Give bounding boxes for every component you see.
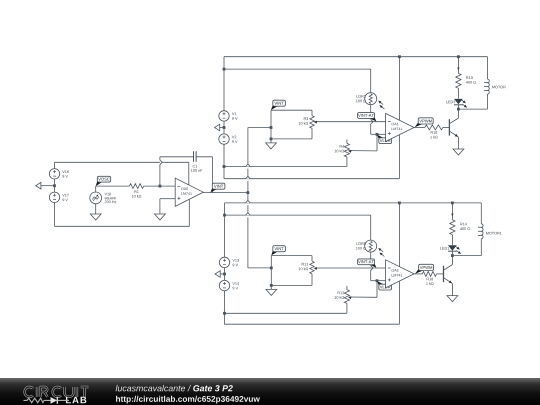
wire R14 to LED1 xyxy=(451,235,453,245)
ground left of V13/V14 xyxy=(215,271,225,278)
wire LED3 to collector xyxy=(457,105,459,109)
wire R1 to OA6 minus input xyxy=(144,185,176,187)
node R13 rail xyxy=(457,55,460,58)
voltage source V16 xyxy=(49,169,69,179)
wire VINT feed bottom rect xyxy=(248,267,271,269)
wire -9Vb rail to R12 xyxy=(225,303,347,313)
node between V13 V14 xyxy=(223,273,226,276)
wire feedback up xyxy=(159,157,161,186)
wire V2 down xyxy=(223,144,225,178)
wiper R4 wire xyxy=(348,134,377,153)
capacitor C1 xyxy=(191,151,202,172)
node OA5 V+ rail xyxy=(398,202,401,205)
label VINT top rect xyxy=(271,100,285,110)
wire LDR5 to OA5 plus xyxy=(371,252,386,281)
label VPWM top xyxy=(415,118,434,127)
wire top rail +9V xyxy=(224,57,488,111)
wire V18 to R1 xyxy=(96,186,130,192)
node rect bottom xyxy=(270,138,273,141)
wire V17 bottom rail xyxy=(55,203,190,227)
label VINT-AT bottom xyxy=(358,259,377,268)
node between V1 V2 xyxy=(223,126,226,129)
wire feedback top right xyxy=(196,157,212,193)
resistor R14 400 xyxy=(450,220,470,235)
ground under V18 xyxy=(90,204,101,220)
transistor Q2 NPN xyxy=(444,265,453,284)
label VPWM bottom xyxy=(415,264,434,273)
photoresistor LDR1 100 xyxy=(356,93,384,109)
wiper R12 wire xyxy=(348,281,377,300)
op-amp OA1 LM741 xyxy=(386,113,415,141)
voltage source V17 xyxy=(49,192,68,202)
resistor R1 xyxy=(129,184,143,198)
node OA1 V+ rail xyxy=(398,55,401,58)
ground at OA6 plus input xyxy=(155,208,166,220)
wire rail to LDR1 xyxy=(224,69,371,93)
label VINT at OA6 output xyxy=(210,183,225,192)
ground under Q2 xyxy=(447,296,458,302)
node R14 rail xyxy=(451,202,454,205)
wire hop VINT x rail215 xyxy=(246,213,251,215)
wire -9V rail to OA1 V- xyxy=(224,135,399,179)
wire OA1 V+ stub xyxy=(398,57,400,121)
wire R16 to Q1 base xyxy=(443,126,450,128)
wire -9V rail to R4 xyxy=(224,157,347,167)
ground under R3 rect xyxy=(266,139,277,149)
wire R3 rect xyxy=(271,110,312,139)
node VINT tee xyxy=(247,191,250,194)
ground under R11 rect xyxy=(266,285,277,295)
label VLDR top block xyxy=(377,135,391,144)
potentiometer R12 10k xyxy=(335,286,350,304)
wire xyxy=(54,179,56,192)
wire rail to LDR5 xyxy=(225,215,371,240)
motor MOTOR1 xyxy=(478,224,502,239)
wire OA5 V+ stub xyxy=(398,203,400,267)
wire feedback top left xyxy=(160,156,194,158)
wire VINT vertical xyxy=(247,128,249,268)
wire OA6 V+ stub xyxy=(188,162,190,185)
wire hop VINT x rail202 xyxy=(246,201,251,203)
LED LED1 xyxy=(440,245,461,254)
wire OA1 output xyxy=(414,126,425,128)
arrow mark above R14 xyxy=(451,214,453,217)
wire Q1 collector up xyxy=(457,109,459,118)
potentiometer R3 10k xyxy=(299,116,315,129)
wire R18 to Q2 base xyxy=(437,273,444,275)
wire LDR1 to OA1 plus xyxy=(371,105,386,135)
wire V14 down xyxy=(224,291,226,324)
wire motor1 bottom xyxy=(452,239,481,256)
wire V16 top rail xyxy=(55,162,189,168)
wire rail to R13 xyxy=(457,57,459,74)
wire Q2 collector up xyxy=(451,256,453,265)
label VINT-AT top xyxy=(358,113,377,122)
resistor R18 1k xyxy=(422,271,436,285)
wiper R11 to OA5 minus xyxy=(314,267,386,270)
node rect feed xyxy=(270,126,273,129)
node VLDR junction xyxy=(376,133,379,136)
wire OA6 V- stub xyxy=(188,200,190,227)
node LED3 motor junction xyxy=(457,108,460,111)
node rail2 tee xyxy=(223,68,226,71)
transistor Q1 NPN xyxy=(449,118,458,137)
voltage source V18 square 200 Hz xyxy=(90,192,116,204)
wiper R3 to OA1 minus xyxy=(314,121,386,124)
wire hop VINT x rail178 xyxy=(246,176,251,178)
node -9Vb tee xyxy=(223,312,226,315)
node VLDRb junction xyxy=(376,279,379,282)
wire hop LDR5 x minuswire xyxy=(371,266,373,271)
node rectb feed xyxy=(270,267,273,270)
wire Q2 emitter down xyxy=(451,284,453,296)
wire OA6 plus to ground xyxy=(160,199,175,208)
ground left of V1/V2 xyxy=(215,124,225,131)
LED LED3 xyxy=(446,99,467,108)
motor MOTOR xyxy=(484,79,506,94)
wire OA6 output xyxy=(203,192,248,194)
wire R11 rect xyxy=(271,256,312,286)
wire R13 to LED3 xyxy=(457,88,459,98)
potentiometer R11 10k xyxy=(299,261,315,274)
wire rail to R14 xyxy=(451,203,453,220)
label VINT bottom rect xyxy=(271,246,285,256)
wire bottom rail +9V xyxy=(225,203,482,257)
wire OA5 output xyxy=(414,273,422,275)
resistor R16 1k xyxy=(425,125,443,138)
node feedback junction xyxy=(159,185,162,188)
ground under Q1 xyxy=(453,149,464,155)
wire motor branch xyxy=(487,57,489,79)
wire hop VINT x rail166 xyxy=(246,164,251,166)
node -9V tee xyxy=(223,165,226,168)
wire LED1 to collector xyxy=(451,251,453,255)
arrow mark above R13 xyxy=(457,68,459,71)
node LED1 motor junction xyxy=(451,254,454,257)
voltage source V14 xyxy=(219,280,239,290)
CircuitLab logo and footer text xyxy=(0,378,540,405)
wire VINT feed top rect xyxy=(248,127,271,129)
wire hop over V16 rail xyxy=(160,160,162,165)
wire between V1 V2 xyxy=(223,121,225,134)
wire motor bottom xyxy=(458,94,487,109)
node between V16 V17 xyxy=(53,184,56,187)
resistor R13 400 xyxy=(456,73,476,88)
op-amp OA5 LM741 xyxy=(386,260,415,288)
photoresistor LDR5 100 xyxy=(356,240,384,256)
wire -9Vb rail to OA5 V- xyxy=(225,281,400,324)
voltage source V13 xyxy=(219,257,239,267)
ground left of V16/V17 xyxy=(36,182,55,189)
voltage source V2 xyxy=(219,134,238,144)
wire between V13 V14 xyxy=(224,268,226,281)
label VLDR bottom block xyxy=(377,281,391,290)
wire hop LDR x minuswire xyxy=(371,119,373,124)
potentiometer R4 10k xyxy=(335,140,350,158)
voltage source V1 xyxy=(219,111,238,121)
wire Q1 emitter down xyxy=(457,137,459,149)
op-amp OA6 LM741 xyxy=(175,178,203,206)
node rail2b tee xyxy=(223,214,226,217)
wire motor1 branch xyxy=(480,203,482,224)
label VOSC xyxy=(96,176,111,186)
node rectb bottom xyxy=(270,284,273,287)
